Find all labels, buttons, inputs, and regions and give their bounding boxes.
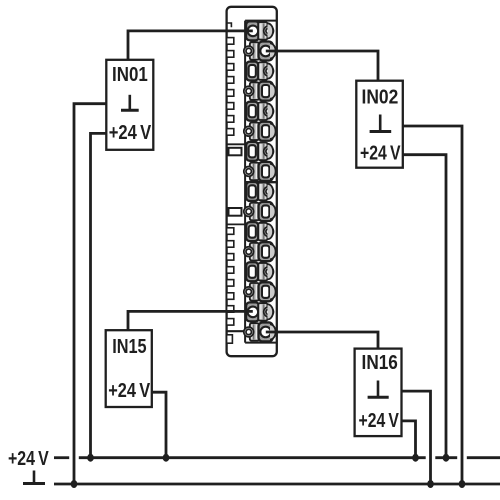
svg-text:IN16: IN16 [362,352,398,374]
junction dots on +24V rail [87,454,449,462]
wire IN16 signal from terminal row 16 [266,332,378,349]
terminal block coding ladder top [227,38,234,136]
terminal row 8 [244,162,276,181]
terminal row 13 [246,262,273,281]
sensor box IN15 [106,330,152,407]
svg-text:IN15: IN15 [112,336,146,358]
label +24 V supply [8,448,49,470]
terminal row 14 [244,282,276,301]
terminal row 4 [244,82,276,101]
terminal block U1 outline [227,7,278,356]
0V ground rail [54,483,500,486]
wire IN01 signal to terminal row 1 [128,31,253,60]
terminal row 9 [246,182,273,201]
wire IN15 +24V to +24V rail [152,392,166,458]
terminal row 1 (wired) [246,21,273,40]
wire IN15 signal to terminal row 15 [128,311,253,330]
terminal row 7 [246,142,273,161]
wire IN02 signal from terminal row 2 [266,51,378,81]
ground symbol inside IN01 [121,95,139,111]
wire IN16 +24V to +24V rail [402,421,416,458]
terminal row 3 [246,62,273,81]
terminal block middle latch section [227,144,246,224]
terminal row 5 [246,102,273,121]
svg-text:+24 V: +24 V [8,448,49,470]
svg-text:+24 V: +24 V [359,410,400,432]
terminal row 15 (wired) [246,302,273,321]
svg-text:IN02: IN02 [362,87,399,109]
terminal row 11 [246,222,273,241]
svg-text:IN01: IN01 [112,64,148,86]
ground symbol inside IN16 [368,381,389,398]
wire IN16 ground to 0V rail [402,391,431,484]
terminal row 10 [244,202,276,221]
ground symbol label at 0V rail [23,471,45,484]
svg-text:+24 V: +24 V [360,143,401,165]
svg-text:+24 V: +24 V [109,122,152,144]
wire IN01 ground to 0V rail [74,104,106,484]
terminal block coding ladder bottom [227,228,246,343]
sensor box IN01 [106,60,153,150]
terminal row 6 [244,122,276,141]
sensor box IN16 [355,349,402,437]
+24V supply rail [54,456,500,459]
ground symbol inside IN02 [370,115,392,132]
wire IN02 ground to 0V rail [403,126,462,484]
terminal row 16 (wired) [244,322,276,341]
junction dots on 0V rail [71,480,466,488]
wire IN01 +24V to +24V rail [91,133,107,457]
wire IN02 +24V to +24V rail [403,155,446,458]
terminal row 2 (wired) [244,41,276,60]
sensor box IN02 [356,81,403,168]
svg-text:+24 V: +24 V [108,380,150,402]
terminal row 12 [244,242,276,261]
